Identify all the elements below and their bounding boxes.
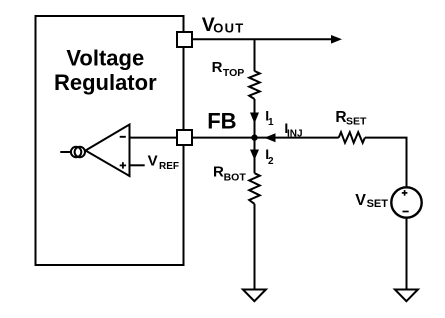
- current arrow I2: [250, 150, 259, 161]
- wire: FB pin to RSET (horizontal through node): [192, 137, 339, 139]
- svg-text:2: 2: [268, 156, 274, 167]
- ground symbol right: [395, 290, 418, 302]
- svg-text:R: R: [212, 59, 223, 76]
- label VSET: [355, 192, 388, 210]
- wire: op-amp minus input to FB pin: [130, 137, 178, 139]
- arrowhead VOUT output: [331, 35, 342, 44]
- op-amp U2 (error amplifier triangle): [86, 125, 130, 177]
- wire: RSET to corner and down to VSET: [365, 138, 407, 188]
- voltage source VSET: [391, 187, 421, 217]
- wire: rail VOUT down to RTOP: [254, 39, 256, 71]
- svg-text:REF: REF: [159, 161, 179, 172]
- svg-text:R: R: [335, 109, 346, 126]
- label I2: [265, 146, 274, 167]
- svg-text:FB: FB: [207, 109, 236, 134]
- svg-text:Regulator: Regulator: [54, 70, 157, 95]
- svg-text:Voltage: Voltage: [66, 45, 144, 70]
- svg-text:SET: SET: [367, 198, 389, 210]
- label IINJ: [284, 120, 302, 139]
- wire: FB node down to RBOT: [254, 138, 256, 174]
- wire: VSET down to ground: [406, 218, 408, 290]
- svg-text:TOP: TOP: [223, 67, 244, 79]
- svg-text:SET: SET: [346, 116, 367, 128]
- resistor RSET zigzag: [339, 132, 365, 143]
- VSET plus sign: [402, 190, 408, 196]
- label Voltage Regulator: [54, 45, 157, 95]
- label RSET: [335, 109, 367, 127]
- label RBOT: [213, 163, 246, 183]
- svg-text:OUT: OUT: [213, 21, 244, 36]
- op-amp plus sign: [120, 162, 126, 168]
- resistor RBOT zigzag: [249, 173, 260, 204]
- svg-text:INJ: INJ: [287, 128, 303, 139]
- current arrow I1: [250, 113, 259, 124]
- ground symbol left: [243, 290, 266, 302]
- label I1: [265, 108, 274, 128]
- current arrow IINJ: [264, 133, 275, 142]
- voltage regulator box U1: [36, 16, 184, 265]
- wire: op-amp plus input stub: [130, 164, 145, 166]
- svg-text:BOT: BOT: [224, 171, 247, 183]
- svg-text:1: 1: [268, 117, 274, 128]
- label VREF: [148, 153, 179, 172]
- resistor RTOP zigzag: [249, 71, 260, 99]
- svg-text:R: R: [213, 163, 224, 180]
- op-amp minus sign: [120, 136, 126, 138]
- svg-text:V: V: [148, 153, 158, 170]
- wire: RTOP to FB node: [254, 99, 256, 138]
- wire: VOUT to arrow: [192, 38, 332, 40]
- wire: RBOT down to ground: [254, 204, 256, 290]
- svg-text:V: V: [355, 192, 366, 209]
- label RTOP: [212, 59, 245, 79]
- pin square FB: [177, 130, 192, 145]
- pin square VOUT: [177, 32, 192, 47]
- wire: op-amp output stub: [60, 151, 71, 153]
- node FB junction dot: [251, 134, 257, 140]
- label VOUT: [202, 14, 245, 36]
- op-amp output double-circle symbol: [71, 147, 85, 157]
- VSET minus sign: [403, 211, 409, 213]
